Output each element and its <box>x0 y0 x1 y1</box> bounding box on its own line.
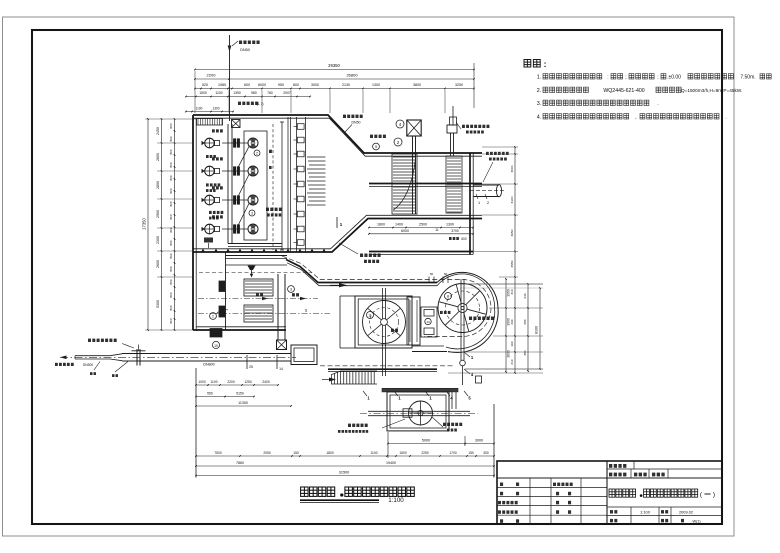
svg-text:1300: 1300 <box>372 83 380 87</box>
outlet junction box <box>291 345 317 365</box>
svg-text:240: 240 <box>523 293 527 298</box>
svg-text:50: 50 <box>444 272 448 276</box>
sump tank outline <box>387 392 449 431</box>
svg-text:;: ; <box>625 75 626 81</box>
screens dim row 2 <box>369 233 473 235</box>
bottom dim detailed row <box>196 455 494 457</box>
svg-text:800: 800 <box>169 279 173 284</box>
circled 10 <box>212 341 219 348</box>
svg-text:3700: 3700 <box>451 229 459 233</box>
blow-off label <box>462 125 465 128</box>
svg-text:2.: 2. <box>537 88 542 94</box>
svg-text::: : <box>657 75 658 81</box>
title block outer frame <box>497 461 722 524</box>
svg-text:2: 2 <box>487 201 489 205</box>
pump house west wall <box>192 115 194 330</box>
svg-text:280: 280 <box>523 319 527 324</box>
racetrack south outer wall <box>328 368 437 370</box>
svg-text:DN800: DN800 <box>203 363 214 367</box>
svg-text:5150: 5150 <box>236 392 244 396</box>
screen 1 drive stem <box>412 136 414 214</box>
water meter box <box>232 120 241 128</box>
svg-text:(1.7): (1.7) <box>257 102 264 106</box>
flow meter label <box>88 339 91 342</box>
circled item 3 <box>249 210 255 216</box>
svg-text:2050: 2050 <box>263 451 271 455</box>
flow meter tee flange <box>136 349 138 366</box>
inlet gate column <box>277 274 279 340</box>
screen channel bypass wall <box>369 251 473 253</box>
pump 4 anchor tip <box>202 227 205 231</box>
step screen 1 <box>392 154 417 214</box>
svg-text:25: 25 <box>249 365 253 369</box>
blow-off pipe <box>452 106 454 125</box>
tick marks near racetrack top <box>428 277 430 284</box>
pump 4 label <box>212 215 215 218</box>
pump house south wall with transition diagonal <box>193 219 482 253</box>
reserved equipment label <box>469 317 472 321</box>
svg-text:600: 600 <box>461 237 467 241</box>
pump 3 coupling <box>234 196 236 204</box>
title block scale and number rows <box>607 506 722 508</box>
svg-text:2500: 2500 <box>419 222 427 226</box>
pipe destination label <box>55 363 58 366</box>
gate marker symbol <box>248 266 256 271</box>
svg-text:1800: 1800 <box>326 451 334 455</box>
svg-text:5000: 5000 <box>422 438 430 442</box>
inlet works south wall <box>193 329 286 331</box>
racetrack north wall <box>286 260 437 283</box>
svg-text:1: 1 <box>478 201 480 205</box>
top dim line overall 29350 <box>195 69 474 71</box>
svg-text:800: 800 <box>169 123 173 128</box>
pipe leader marks <box>94 362 100 371</box>
svg-text:800: 800 <box>169 253 173 258</box>
svg-text:800: 800 <box>169 136 173 141</box>
svg-text:800: 800 <box>169 240 173 245</box>
svg-text:980: 980 <box>251 91 257 95</box>
svg-text:600: 600 <box>244 83 250 87</box>
pump 1 label <box>212 129 215 132</box>
dim extension verticals <box>228 90 230 113</box>
screen channel west wall <box>281 122 283 250</box>
pipe section marks <box>246 355 248 369</box>
outlet channel label <box>360 254 363 258</box>
top dim line segments <box>195 88 474 90</box>
svg-text:1100: 1100 <box>215 91 222 95</box>
svg-text:26800: 26800 <box>346 73 358 78</box>
svg-text:WQ2445-621-400: WQ2445-621-400 <box>603 88 644 94</box>
sump pump circle <box>409 401 433 425</box>
screen channel double wall <box>287 117 289 252</box>
screens east wall <box>469 153 471 255</box>
svg-text:1:100: 1:100 <box>388 497 404 504</box>
svg-text:1100: 1100 <box>210 380 217 384</box>
mid dim row 1 <box>196 384 278 386</box>
pump 1 anchor tip <box>202 141 205 145</box>
pump 2 flange <box>215 168 220 173</box>
svg-text:150: 150 <box>293 451 299 455</box>
svg-text:800: 800 <box>169 175 173 180</box>
svg-text:6000: 6000 <box>401 229 409 233</box>
pump room small labels <box>206 155 209 158</box>
inter-pump diagonal pipes <box>239 147 250 167</box>
right dim line d <box>539 288 541 369</box>
right grit hub <box>458 303 467 312</box>
pump 2 coupling <box>234 167 236 175</box>
svg-text:3.: 3. <box>537 101 542 107</box>
right grit shaft <box>460 279 462 360</box>
pump 3 anchor tip <box>202 198 205 202</box>
right grit small label <box>440 311 443 314</box>
wall hatch ticks on pump house floor edge <box>201 248 204 251</box>
svg-text:2600: 2600 <box>156 260 160 268</box>
left grit circle <box>363 301 406 344</box>
screen 2 drive <box>450 133 452 156</box>
svg-text:11: 11 <box>368 314 372 318</box>
svg-text:8: 8 <box>447 295 449 299</box>
leader 1 to shaft <box>464 352 470 357</box>
sluice gate A <box>219 281 225 292</box>
svg-text:31500: 31500 <box>339 470 350 474</box>
top dim line 4 segments <box>186 96 310 98</box>
step screen label <box>370 135 373 138</box>
svg-text:800: 800 <box>169 149 173 154</box>
screen channel middle wall <box>369 183 482 185</box>
svg-text:,: , <box>635 115 636 121</box>
svg-text:350: 350 <box>523 350 527 355</box>
bottom dim 5000/3000 <box>388 443 494 445</box>
inlet corridor east wall <box>225 252 227 330</box>
section leaders bottom <box>363 391 367 396</box>
svg-text:760: 760 <box>267 91 273 95</box>
svg-text:2300: 2300 <box>156 236 160 244</box>
sluice slot columns <box>296 117 298 252</box>
left grit label <box>391 329 394 332</box>
inlet channel dashed line <box>199 272 312 274</box>
left grit tank <box>355 296 412 348</box>
pump 1 discharge pipe <box>222 142 248 144</box>
svg-text:3: 3 <box>290 288 292 292</box>
svg-text:2550: 2550 <box>510 260 514 267</box>
screen 1 motor box <box>407 120 421 136</box>
pump 4 coupling <box>234 225 236 233</box>
svg-text:1300: 1300 <box>212 107 219 111</box>
drawing title <box>301 487 309 496</box>
svg-text:-W(1): -W(1) <box>691 519 700 523</box>
svg-text:550: 550 <box>207 392 213 396</box>
racetrack south inner wall <box>412 345 444 347</box>
svg-text::: : <box>544 59 547 69</box>
svg-text:DN300: DN300 <box>83 363 93 367</box>
channel centerline A with flow arrows <box>198 298 318 300</box>
top mini dim row <box>186 111 233 113</box>
pump house north wall with transition diagonal <box>193 115 482 153</box>
notes heading <box>524 60 531 68</box>
svg-text:2: 2 <box>256 152 258 156</box>
right grit circle <box>438 284 487 333</box>
inlet channel top wall <box>226 255 287 257</box>
circled item 2 <box>254 150 260 156</box>
dashed column line <box>272 124 274 250</box>
backwash pipe label <box>343 115 346 118</box>
right grit spokes <box>467 309 486 314</box>
pump 1 flange <box>215 140 220 145</box>
left grit hub and spokes <box>381 319 388 326</box>
svg-text:2009.02: 2009.02 <box>679 510 693 515</box>
top dim line 2200+26800 <box>195 78 474 80</box>
left dim line mid <box>161 119 163 330</box>
svg-text:7500: 7500 <box>214 451 222 455</box>
pipe reducer and end arrow <box>110 353 122 355</box>
svg-text:1390: 1390 <box>233 91 241 95</box>
svg-text:800: 800 <box>169 201 173 206</box>
pump 3 suction bell <box>205 195 215 205</box>
svg-text:.±0.00: .±0.00 <box>667 75 681 81</box>
left grit shaft <box>382 288 384 376</box>
svg-text:1:100: 1:100 <box>640 510 651 515</box>
screen channel inner lines <box>365 155 482 157</box>
wet well bottom marker <box>204 238 213 243</box>
svg-text:1100: 1100 <box>370 451 377 455</box>
svg-text:2130: 2130 <box>342 83 350 87</box>
svg-text:11350: 11350 <box>238 401 248 405</box>
svg-text:290: 290 <box>510 319 514 324</box>
stair hole note <box>238 102 241 105</box>
submersible pump label <box>443 423 446 426</box>
circled 2b <box>394 138 402 146</box>
platform label <box>348 424 351 427</box>
mid dim row 3 <box>196 405 291 407</box>
left overall dim 17350 <box>147 119 149 330</box>
svg-text:800: 800 <box>169 318 173 323</box>
sump suction pipe <box>368 410 470 412</box>
svg-text:3600: 3600 <box>507 350 511 358</box>
svg-text:1980: 1980 <box>218 83 226 87</box>
coarse screen A <box>244 279 273 296</box>
svg-text:2800: 2800 <box>156 153 160 161</box>
circled 3b <box>288 286 295 293</box>
factory water pipe label <box>239 41 242 45</box>
coarse screen B <box>244 305 273 322</box>
small box marker <box>476 376 482 383</box>
svg-text:3000: 3000 <box>311 83 319 87</box>
circled 5 <box>373 143 380 150</box>
svg-text:800: 800 <box>169 292 173 297</box>
bottom dim 31500 <box>196 475 494 477</box>
svg-text:10: 10 <box>214 344 218 348</box>
svg-text:3: 3 <box>251 212 253 216</box>
svg-text:2400: 2400 <box>262 380 270 384</box>
left dim extension lines <box>145 118 196 120</box>
channel centerline B <box>198 313 330 315</box>
svg-text:1100: 1100 <box>196 107 203 111</box>
svg-text:2250: 2250 <box>421 451 429 455</box>
circled 8 <box>445 293 452 300</box>
wash pipe label <box>486 152 489 155</box>
svg-text:5300: 5300 <box>156 300 160 308</box>
svg-text::: : <box>607 75 608 81</box>
svg-text:1250: 1250 <box>244 380 252 384</box>
svg-text:1300: 1300 <box>446 222 454 226</box>
channel flow arrow right <box>339 283 347 287</box>
pump 4 motor unit <box>248 224 258 234</box>
sump drop pipe <box>451 392 453 409</box>
pump 1 motor unit <box>248 138 258 148</box>
svg-text:3000: 3000 <box>475 438 483 442</box>
sluice gate C <box>210 329 222 338</box>
svg-text:1.: 1. <box>537 75 542 81</box>
svg-text:800: 800 <box>169 266 173 271</box>
bottom dim extension lines <box>195 368 197 478</box>
svg-text:DN50: DN50 <box>240 48 250 52</box>
machine hall inner south wall <box>228 243 282 245</box>
divider column between tanks <box>407 297 420 345</box>
flow straightener fan hatch <box>307 156 326 158</box>
svg-text:800: 800 <box>169 305 173 310</box>
svg-text:160: 160 <box>510 341 514 346</box>
staircase hatch <box>331 375 333 385</box>
bottom dim 19400 <box>196 465 494 467</box>
svg-text:310: 310 <box>510 289 514 294</box>
title block drawing name <box>609 489 615 497</box>
pump 2 suction bell <box>205 166 215 176</box>
svg-text:1800: 1800 <box>377 222 385 226</box>
svg-text:50: 50 <box>430 272 434 276</box>
left tank side cell <box>339 296 341 348</box>
svg-text:3250: 3250 <box>455 83 463 87</box>
svg-text:4.: 4. <box>537 115 542 121</box>
title block signature grid <box>497 487 607 489</box>
svg-text:1000: 1000 <box>198 380 206 384</box>
svg-text:5: 5 <box>375 145 377 149</box>
circled 2c <box>210 313 217 320</box>
svg-text:3100: 3100 <box>510 196 514 203</box>
pump 1 suction bell <box>205 138 215 148</box>
pump 2 anchor tip <box>202 169 205 173</box>
wet well east wall <box>227 124 229 244</box>
svg-text:.: . <box>657 101 658 107</box>
sludge discharge pipe <box>122 353 291 355</box>
left dim line inner <box>174 119 176 330</box>
svg-text:800: 800 <box>169 214 173 219</box>
svg-text:3650: 3650 <box>510 229 514 236</box>
svg-text:210: 210 <box>510 359 514 364</box>
svg-text:3000: 3000 <box>510 165 514 172</box>
svg-text:,Q=1500m3/h,H=9m,P=45kW.: ,Q=1500m3/h,H=9m,P=45kW. <box>680 88 743 93</box>
svg-text:DN50: DN50 <box>352 121 361 125</box>
svg-text:7.50m.: 7.50m. <box>740 75 755 81</box>
svg-text:8100: 8100 <box>535 326 539 334</box>
right dim line a <box>505 279 507 372</box>
svg-text:7860: 7860 <box>236 461 244 465</box>
svg-text:2007: 2007 <box>283 91 291 95</box>
svg-text:800: 800 <box>293 83 299 87</box>
transfer channel <box>421 307 437 337</box>
pump 4 discharge pipe <box>222 228 248 230</box>
svg-text:14: 14 <box>279 367 283 371</box>
circled 13 <box>425 318 431 324</box>
svg-text:1700: 1700 <box>449 451 457 455</box>
svg-text:2450: 2450 <box>156 127 160 135</box>
svg-text:950: 950 <box>278 83 284 87</box>
svg-text:13: 13 <box>426 320 430 324</box>
circled 11 <box>367 312 374 319</box>
svg-text:300: 300 <box>483 451 489 455</box>
right dim line c <box>527 284 529 371</box>
pump 2 label <box>212 157 215 160</box>
roof platform hatch strip <box>197 119 223 126</box>
pump gallery enclosure <box>244 131 267 240</box>
svg-text:520: 520 <box>202 83 208 87</box>
rotary screen 2 <box>446 156 462 213</box>
screens dim row 1 <box>369 227 473 229</box>
racetrack east outer arc <box>437 272 498 352</box>
svg-text:19400: 19400 <box>386 461 396 465</box>
svg-text:11: 11 <box>435 228 439 232</box>
svg-text:150: 150 <box>468 451 474 455</box>
sluice gate B <box>219 306 225 317</box>
pump 3 label <box>212 186 215 189</box>
pump 3 motor unit <box>248 195 258 205</box>
svg-text:2800: 2800 <box>156 181 160 189</box>
pump 2 discharge pipe <box>222 170 248 172</box>
platform dark band <box>382 388 458 392</box>
pump 3 discharge pipe <box>222 199 248 201</box>
right dim line b <box>514 147 516 373</box>
inner thick drawing frame <box>32 30 722 524</box>
racetrack dashed centerline <box>282 256 491 337</box>
right dim extension lines <box>482 153 518 155</box>
svg-text:1500: 1500 <box>199 91 207 95</box>
section mark 1 top <box>336 217 338 228</box>
outlet trough <box>473 184 499 186</box>
pump 2 motor unit <box>248 166 258 176</box>
svg-text:2900: 2900 <box>156 210 160 218</box>
title block header rows <box>606 461 608 524</box>
pump 3 flange <box>215 197 220 202</box>
svg-text:800: 800 <box>169 162 173 167</box>
pump 4 flange <box>215 226 220 231</box>
factory water pipe DN50 <box>229 35 231 121</box>
svg-text:2200: 2200 <box>207 73 217 78</box>
mid dim row 2 <box>196 396 254 398</box>
pump 1 coupling <box>234 139 236 147</box>
circled 4 <box>396 120 404 128</box>
pump house name label <box>266 208 269 211</box>
svg-text:17350: 17350 <box>142 218 147 230</box>
svg-text:): ) <box>713 492 715 499</box>
svg-text:.: . <box>725 115 726 121</box>
vent marks <box>269 150 272 153</box>
svg-text:1400: 1400 <box>395 222 403 226</box>
svg-text:2200: 2200 <box>227 380 235 384</box>
svg-text:2: 2 <box>212 315 214 319</box>
svg-text:800: 800 <box>169 188 173 193</box>
svg-text:6000: 6000 <box>258 83 266 87</box>
svg-text:29350: 29350 <box>328 63 340 68</box>
svg-text:1500: 1500 <box>399 451 407 455</box>
pump 4 suction bell <box>205 224 215 234</box>
svg-text:3800: 3800 <box>413 83 421 87</box>
